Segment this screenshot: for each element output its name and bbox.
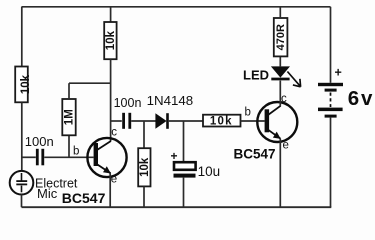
wire C1 to Q1 base [44, 156, 93, 158]
svg-text:e: e [111, 173, 117, 185]
wire 1M top to collector node [69, 82, 111, 84]
wire LED anode to R6 [279, 56, 281, 66]
capacitor C3 10u electrolytic [174, 162, 196, 207]
svg-text:1M: 1M [64, 109, 76, 125]
wire R5 to Q2 base [241, 120, 265, 122]
svg-text:e: e [283, 140, 289, 152]
wire R6 to top rail [279, 7, 281, 18]
capacitor C2 100n (output coupling) [124, 113, 130, 129]
wire R4 to ground rail [143, 186, 145, 207]
wire collector node to C2 [111, 120, 122, 122]
svg-text:10k: 10k [105, 30, 117, 50]
resistor R1 10k (left, mic bias) [15, 67, 32, 103]
svg-text:1N4148: 1N4148 [147, 93, 194, 108]
electret mic MIC1 [10, 171, 34, 195]
wire left vertical from R1 to mic (junction with C1 wire) [21, 102, 23, 171]
svg-text:b: b [73, 146, 79, 158]
wire bottom ground rail [22, 206, 332, 208]
wire Q2 emitter to ground rail [279, 139, 281, 208]
wire rail to R3 [110, 7, 112, 22]
wire rail to battery top [330, 7, 332, 83]
svg-text:10k: 10k [139, 157, 151, 177]
svg-text:10u: 10u [198, 164, 221, 179]
wire 1M bottom lead to base wire [68, 135, 70, 157]
wire D1 cathode to R5 (junction to C3 at x=183.5) [169, 120, 203, 122]
svg-text:+: + [171, 149, 178, 163]
svg-text:10k: 10k [20, 74, 32, 94]
battery B1 6v [318, 83, 343, 118]
resistor R2 1M (feedback bias) [62, 99, 75, 135]
resistor R5 10k (horizontal, Q2 base) [203, 115, 241, 128]
svg-text:b: b [245, 107, 251, 119]
svg-text:+: + [335, 66, 342, 80]
wire left vertical from rail to R1 [21, 7, 23, 67]
LED D2 [271, 66, 301, 86]
svg-text:BC547: BC547 [234, 146, 276, 161]
svg-text:470R: 470R [275, 24, 287, 50]
wire from left vertical to C1 [22, 156, 36, 158]
wire junction down to C3 [183, 121, 185, 162]
svg-text:10k: 10k [210, 115, 233, 127]
wire R3 to Q1 collector (junctions at 1M node and C2 node) [110, 59, 112, 141]
wire Q1 emitter to ground rail [109, 173, 111, 207]
transistor Q2 BC547 [257, 102, 297, 142]
resistor R4 10k (to ground) [138, 148, 151, 186]
svg-text:100n: 100n [114, 96, 142, 110]
wire C2 to D1 anode (junction to R4 at x=144) [131, 120, 155, 122]
wire 1M top lead [68, 83, 70, 99]
capacitor C1 100n (input coupling) [37, 149, 43, 166]
svg-text:c: c [281, 93, 287, 105]
wire battery bottom to ground rail [330, 118, 332, 208]
resistor R6 470R [274, 18, 288, 56]
svg-text:LED: LED [243, 68, 269, 83]
resistor R3 10k (Q1 collector load) [104, 22, 117, 59]
svg-text:100n: 100n [25, 134, 54, 149]
diode D1 1N4148 [155, 113, 167, 129]
transistor Q1 BC547 [87, 138, 126, 177]
wire Q2 collector to LED [279, 81, 281, 106]
svg-text:6v: 6v [348, 87, 374, 110]
svg-text:Mic: Mic [37, 186, 58, 201]
svg-text:c: c [111, 127, 117, 139]
wire top supply rail [22, 6, 331, 8]
wire junction down to R4 [143, 121, 145, 148]
wire mic bottom to ground rail [21, 194, 23, 207]
svg-text:BC547: BC547 [62, 190, 106, 206]
